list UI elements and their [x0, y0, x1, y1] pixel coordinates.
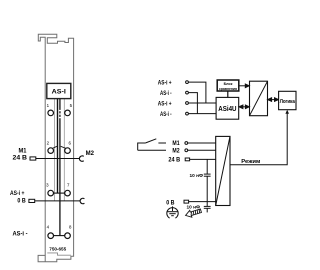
svg-text:AS-i -: AS-i -	[13, 230, 28, 237]
svg-text:0 В: 0 В	[166, 200, 175, 207]
svg-text:24 B: 24 B	[168, 157, 180, 164]
svg-text:Блок: Блок	[224, 81, 233, 86]
svg-text:AS-i -: AS-i -	[160, 90, 172, 97]
svg-text:0 B: 0 B	[17, 197, 26, 204]
svg-text:AS-i +: AS-i +	[158, 100, 172, 107]
svg-text:Режим: Режим	[241, 159, 260, 165]
svg-text:6: 6	[68, 141, 71, 146]
svg-text:AS-i +: AS-i +	[158, 79, 172, 86]
svg-text:M2: M2	[86, 150, 95, 157]
svg-text:750-655: 750-655	[49, 247, 66, 252]
svg-text:AS-i -: AS-i -	[160, 111, 172, 118]
svg-text:сравнения: сравнения	[219, 87, 237, 91]
svg-text:5: 5	[70, 103, 73, 108]
svg-text:7: 7	[67, 182, 70, 187]
svg-text:M2: M2	[172, 147, 180, 154]
svg-text:1: 1	[47, 103, 50, 108]
svg-text:4: 4	[47, 225, 50, 230]
svg-text:3: 3	[46, 182, 49, 187]
svg-text:AS-I: AS-I	[52, 89, 66, 96]
svg-text:8: 8	[69, 225, 72, 230]
svg-text:M1: M1	[19, 148, 28, 155]
svg-text:M1: M1	[172, 140, 180, 147]
svg-text:AS-i +: AS-i +	[10, 190, 25, 197]
svg-text:10 нФ: 10 нФ	[190, 173, 204, 179]
svg-text:ASi4U: ASi4U	[218, 106, 236, 113]
svg-text:Логика: Логика	[280, 99, 296, 105]
svg-text:2: 2	[47, 141, 50, 146]
svg-text:24 B: 24 B	[13, 155, 28, 162]
